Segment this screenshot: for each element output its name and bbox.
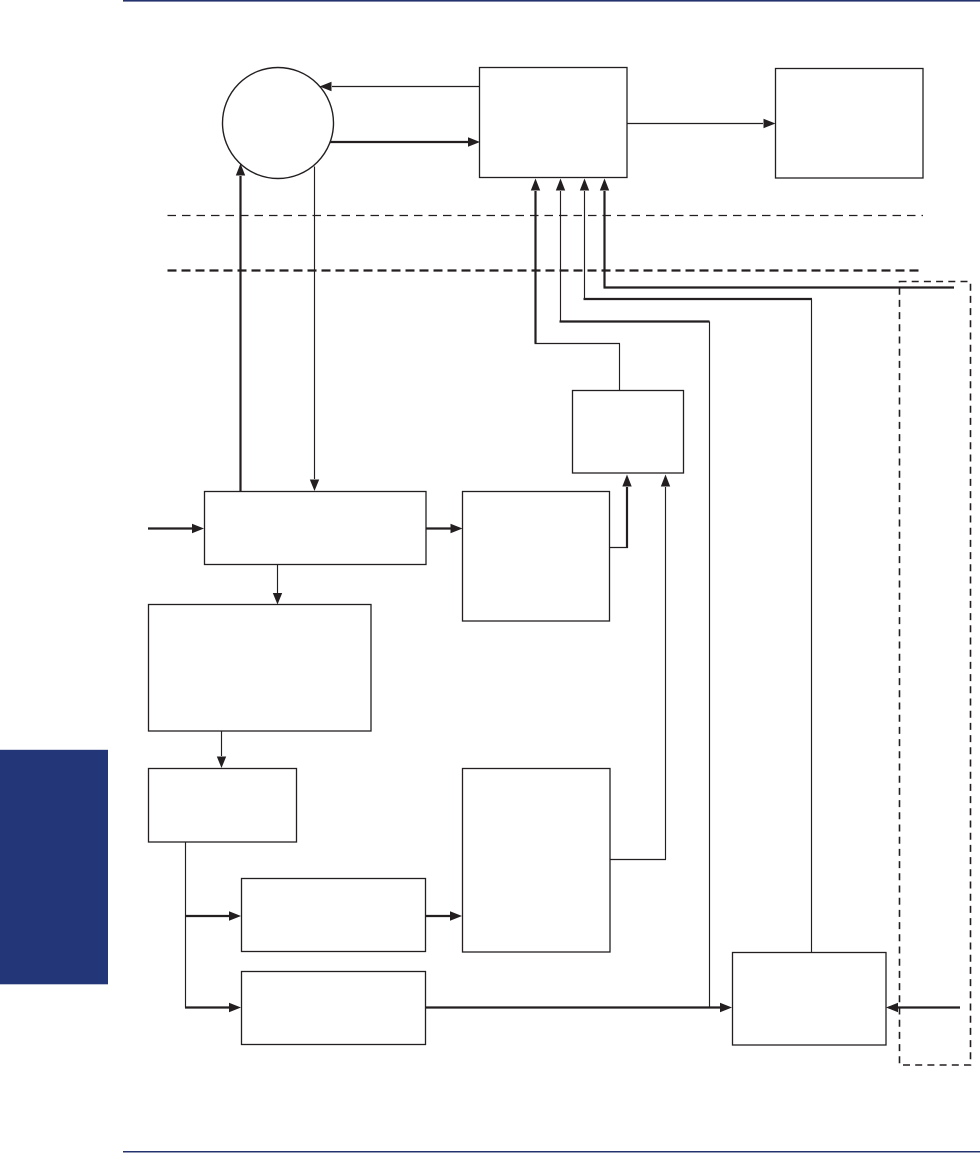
dashed rule upper [168,215,924,217]
wire boxD up to circle (bold, up arrow) [236,164,245,493]
stem 1 horizontal from boxC riser [535,343,621,345]
box I (tall middle) [463,769,611,953]
wire boxI to boxC (elbow, thin up arrow) [610,475,670,860]
stem 3 up into boxA (thin vertical) [580,179,589,300]
branch arrow into boxH (bold) [185,911,241,920]
box C [573,391,684,474]
stem 4 up into boxA (bold vertical) [600,179,609,288]
trunk wire from boxG bottom [185,842,187,1008]
wire boxA to boxB (thin, right arrow) [627,119,776,128]
stem 3 descender to boxK top [811,299,813,952]
stem 2 up into boxA (thin vertical) [556,179,565,322]
page top rule [123,0,980,2]
page bottom rule [123,1151,980,1153]
wire circle down to boxD (thin, down arrow) [310,167,319,492]
box D (wide middle-left) [205,492,427,565]
stem 4 horizontal into dashed region (bold) [604,286,955,288]
box F (tall left) [149,605,372,732]
stem 2 long descender to boxJ-boxK wire [709,322,711,1008]
box A (top middle) [480,68,628,178]
wire boxJ to boxK (bold, right arrow) [426,1003,733,1012]
stem 2 horizontal (bold) [560,320,710,322]
branch arrow into boxJ (bold) [185,1003,241,1012]
wire boxD to boxE (bold, right arrow) [426,524,463,533]
wire boxA to circle (thin, left arrow) [320,82,481,91]
dashed rule lower [168,269,924,271]
stem 3 horizontal (bold) [584,298,813,300]
wire circle to boxA (bold, right arrow) [330,137,480,146]
arrow from dashed region into boxK (bold, left arrow) [886,1003,960,1012]
wire boxE to boxC (elbow, bold up arrow) [610,475,632,549]
box G [149,769,297,843]
wire boxF down to boxG (thin, down arrow) [217,731,226,768]
input arrow into boxD (bold) [148,524,204,533]
wire boxD down to boxF (thin, down arrow) [273,565,282,605]
dashed region box [900,282,971,1066]
box B (top right) [776,69,924,179]
box E [463,492,610,622]
box J (bottom left) [242,972,426,1045]
box K (bottom right) [733,953,887,1046]
chapter tab bar [0,750,108,985]
summing circle [223,68,334,179]
wire boxH to boxI (bold, right arrow) [426,911,463,920]
riser into boxC top [619,344,621,391]
stem 1 up into boxA (bold vertical) [531,179,540,344]
box H [242,879,426,952]
